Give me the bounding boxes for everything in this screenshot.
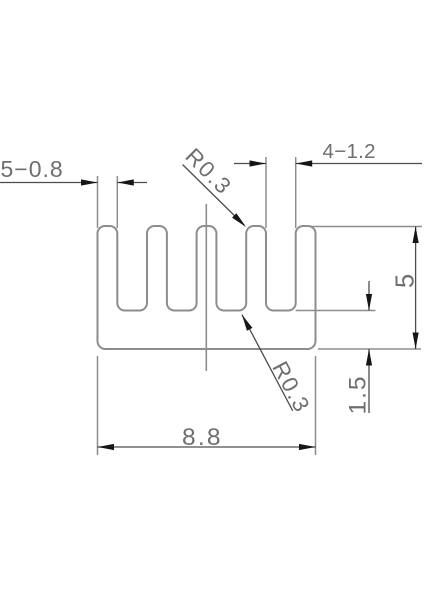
dim 5 right: arrow bottom <box>413 333 419 350</box>
dim 5 right: arrow top <box>413 227 419 244</box>
dim 5-0.8: dimension line left <box>0 182 98 184</box>
heatsink profile outline <box>98 226 316 349</box>
dim 5-0.8: extension line right <box>116 176 118 228</box>
dim 5-0.8: arrow right <box>117 179 134 185</box>
dim 8.8 bottom: extension line right <box>315 356 317 455</box>
radius R0.3 bottom: leader <box>242 315 293 411</box>
svg-text:8.8: 8.8 <box>182 424 223 451</box>
dim 1.5 right: arrow down <box>366 294 372 311</box>
svg-text:R0.3: R0.3 <box>267 357 315 417</box>
svg-text:4−1.2: 4−1.2 <box>323 140 376 163</box>
dim 4-1.2: extension line right <box>295 157 297 228</box>
dim 8.8 bottom: extension line left <box>97 356 99 455</box>
dim 5 right: extension line bottom <box>318 348 421 350</box>
dim 1.5 right: upper dimension line <box>368 281 370 311</box>
center line through middle fin <box>205 204 207 371</box>
dim 1.5 right: lower dimension line <box>368 349 370 413</box>
radius R0.3 bottom: arrow <box>239 313 252 330</box>
dim 4-1.2: dimension line right <box>296 163 422 165</box>
dim 8.8 bottom: arrow right <box>299 444 316 450</box>
dim 8.8 bottom: arrow left <box>98 444 115 450</box>
dim 5 right: dimension line <box>415 227 417 350</box>
svg-text:1.5: 1.5 <box>345 374 372 414</box>
radius R0.3 top: arrow <box>232 213 248 229</box>
dim 5 right: extension line top <box>310 226 422 228</box>
dim 5-0.8: dimension line right <box>117 182 147 184</box>
dim 1.5 right: extension line top <box>296 310 376 312</box>
svg-text:5: 5 <box>392 274 420 288</box>
dim 4-1.2: arrow left <box>250 160 267 166</box>
dim 5-0.8: arrow left <box>81 179 98 185</box>
radius R0.3 top: leader <box>183 165 245 226</box>
dim 4-1.2: dimension line left <box>234 163 266 165</box>
dim 5-0.8: extension line left <box>97 176 99 228</box>
svg-text:5−0.8: 5−0.8 <box>1 156 64 182</box>
dim 8.8 bottom: dimension line <box>98 446 316 448</box>
dim 4-1.2: extension line left <box>265 157 267 228</box>
dim 4-1.2: arrow right <box>296 160 313 166</box>
dim 1.5 right: arrow up <box>366 349 372 366</box>
